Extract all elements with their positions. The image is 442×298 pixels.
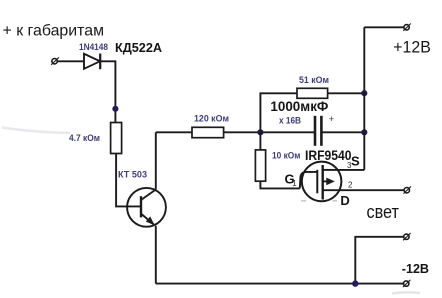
resistor R3 51 кОм (horizontal box): [297, 88, 328, 98]
wire input to diode anode: [58, 60, 85, 62]
svg-text:КТ 503: КТ 503: [118, 169, 147, 180]
svg-text:51 кОм: 51 кОм: [299, 75, 329, 86]
svg-text:-12В: -12В: [402, 261, 429, 276]
resistor R1 4.7 кОм (vertical box): [111, 123, 122, 154]
svg-text:2: 2: [348, 181, 353, 190]
svg-text:4.7 кОм: 4.7 кОм: [69, 133, 100, 144]
svg-text:D: D: [340, 193, 349, 208]
svg-text:+12В: +12В: [393, 37, 431, 56]
smudge artifact dash under mosfet left: [301, 200, 306, 202]
wire branch down to R4: [259, 132, 261, 150]
capacitor C1 1000мкФ x 16В: [315, 116, 321, 146]
terminal X4 свет return: [403, 233, 411, 240]
terminal X2 +12В: [403, 24, 411, 31]
terminal X3 drain свет: [404, 186, 412, 193]
svg-text:КД522А: КД522А: [115, 40, 163, 55]
svg-text:IRF9540: IRF9540: [305, 147, 352, 163]
svg-text:S: S: [351, 154, 360, 169]
wire capacitor right plate to right rail: [322, 131, 364, 133]
mosfet VT2 IRF9540: [300, 162, 342, 202]
wire collector up to mid rail: [155, 132, 157, 189]
svg-text:120 кОм: 120 кОм: [194, 113, 229, 124]
wire R1 bottom to transistor base: [116, 154, 141, 207]
diode VD1 КД522А (1N4148): [84, 54, 100, 70]
wire drain to свет terminal: [323, 189, 405, 191]
wire top to +12В terminal: [364, 26, 404, 28]
svg-text:х 16В: х 16В: [279, 115, 301, 126]
svg-text:+ к габаритам: + к габаритам: [3, 23, 105, 40]
node junction dot mid rail at right rail: [361, 129, 367, 135]
svg-text:1N4148: 1N4148: [79, 42, 108, 53]
wire right rail vertical from +12В corner down to source: [363, 27, 365, 170]
svg-text:свет: свет: [367, 202, 400, 222]
smudge artifact below -12В terminal: [392, 292, 420, 293]
svg-text:G: G: [285, 171, 295, 186]
wire emitter down to bottom rail: [155, 226, 157, 284]
wire diode cathode right then down to R1: [100, 61, 115, 122]
wire R4 bottom to gate: [260, 181, 299, 188]
wire R3 right to right rail: [328, 92, 365, 94]
resistor R4 10 кОм (vertical box): [255, 150, 265, 181]
terminal X5 -12В: [403, 280, 411, 287]
wire свет return to bottom rail: [355, 237, 404, 284]
svg-text:+: +: [329, 114, 334, 124]
transistor VT1 КТ503: [127, 188, 166, 227]
wire source to right rail: [337, 169, 364, 171]
node junction dot mid rail at R3/R4 branch: [257, 129, 263, 135]
svg-text:10 кОм: 10 кОм: [272, 150, 301, 161]
smudge artifact dash under mosfet right: [333, 200, 338, 202]
terminal X1 input + к габаритам: [51, 57, 59, 64]
wire R2 to capacitor left plate: [224, 131, 314, 133]
smudge artifact left edge: [2, 128, 70, 134]
svg-text:1000мкФ: 1000мкФ: [270, 98, 328, 114]
wire bottom rail: [156, 283, 404, 285]
wire branch up to R3: [260, 93, 297, 132]
wire mid rail left segment: [156, 131, 192, 133]
node junction dot R3 right rail: [361, 90, 367, 96]
resistor R2 120 кОм (horizontal box): [192, 127, 224, 137]
node junction dot above R1: [112, 106, 118, 112]
node junction dot bottom rail: [352, 280, 358, 286]
